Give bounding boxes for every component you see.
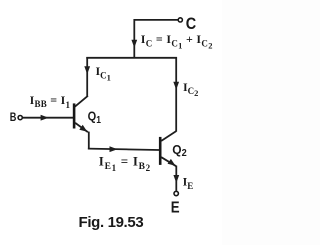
svg-text:C: C xyxy=(186,15,196,33)
svg-text:E: E xyxy=(171,199,180,216)
svg-text:Fig. 19.53: Fig. 19.53 xyxy=(79,214,144,231)
svg-text:B: B xyxy=(10,112,17,124)
